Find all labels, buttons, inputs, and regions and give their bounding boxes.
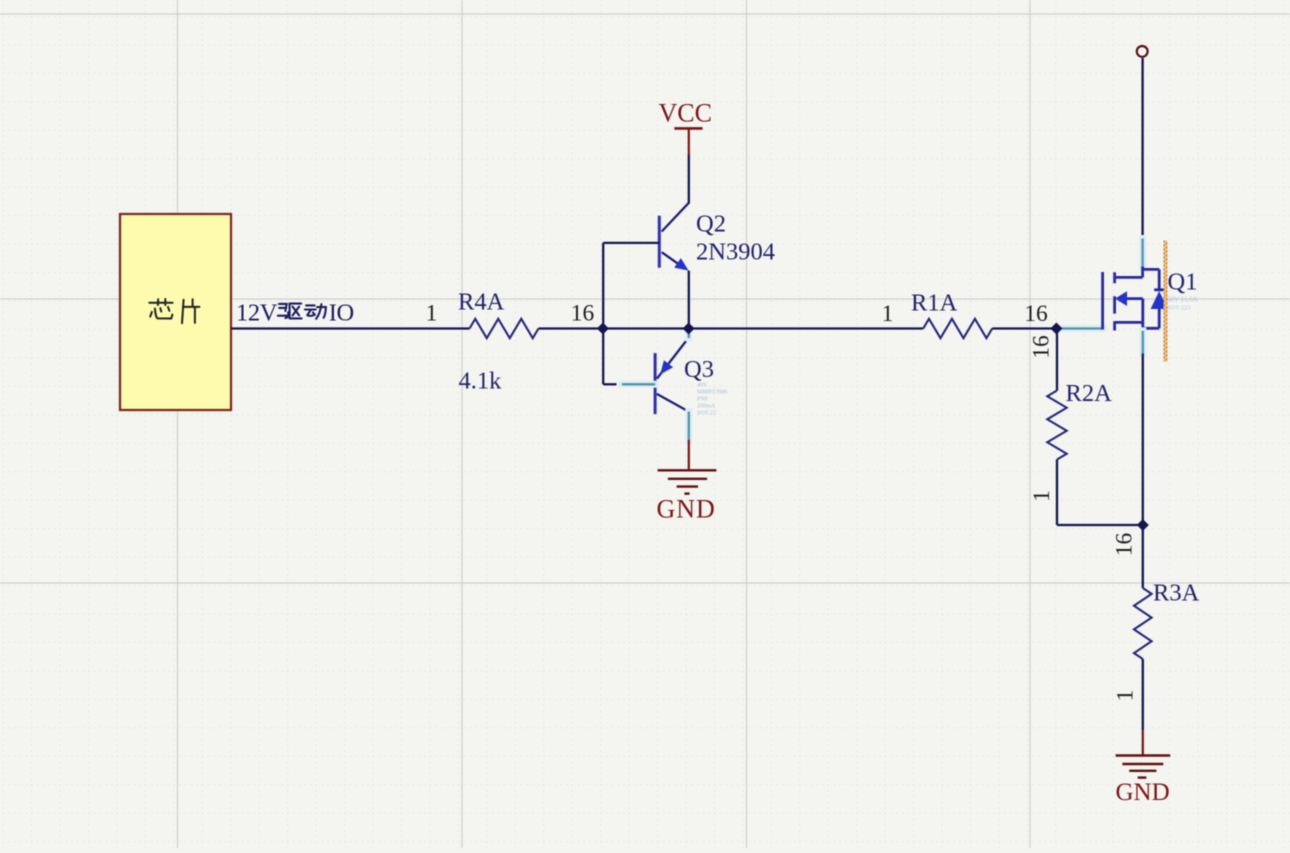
wire GND pin (red) bbox=[688, 440, 690, 469]
svg-text:1: 1 bbox=[1113, 690, 1139, 702]
wire R2A bottom lead bbox=[1056, 460, 1058, 526]
svg-text:R4A: R4A bbox=[458, 289, 505, 316]
svg-text:PNP: PNP bbox=[697, 397, 709, 403]
net label 12V驱动IO bbox=[236, 300, 354, 327]
wire R2A top lead bbox=[1056, 329, 1058, 391]
wire R3A bottom lead bbox=[1142, 659, 1144, 730]
transistor Q3 (PNP) bbox=[655, 338, 727, 417]
svg-text:MMBT3906: MMBT3906 bbox=[697, 390, 727, 396]
svg-text:Q2: Q2 bbox=[696, 211, 726, 238]
svg-text:1: 1 bbox=[1029, 490, 1055, 502]
svg-text:60V 11.6A: 60V 11.6A bbox=[1167, 296, 1198, 304]
resistor R4A bbox=[426, 289, 595, 395]
pin Q3 collector (cyan) bbox=[685, 412, 692, 440]
svg-text:16: 16 bbox=[1029, 335, 1055, 359]
wire drain vertical bbox=[1141, 58, 1143, 239]
svg-text:Q1: Q1 bbox=[1168, 269, 1198, 296]
resistor R3A bbox=[1112, 533, 1200, 702]
wire R3A top lead bbox=[1142, 525, 1144, 588]
wire gate (cyan) bbox=[1057, 325, 1103, 332]
wire Q2 emitter down to rail bbox=[688, 271, 690, 329]
svg-text:SOT-223: SOT-223 bbox=[1167, 305, 1191, 312]
pin Q3 base (cyan) bbox=[622, 381, 655, 388]
svg-text:SOT-23: SOT-23 bbox=[697, 411, 716, 417]
resistor R1A bbox=[882, 290, 1048, 339]
junction dot C (R1A / gate / R2A) bbox=[1050, 323, 1062, 335]
pin Q1 drain (cyan) bbox=[1139, 239, 1146, 268]
junction dot D (source / R2A / R3A) bbox=[1137, 519, 1149, 531]
svg-text:1: 1 bbox=[426, 301, 438, 327]
svg-text:16: 16 bbox=[571, 301, 595, 327]
pin Q1 source (cyan) bbox=[1139, 331, 1146, 354]
orange hatch strip bbox=[1164, 241, 1168, 362]
svg-text:VCC: VCC bbox=[659, 99, 712, 128]
svg-text:GND: GND bbox=[657, 495, 716, 524]
wire left vertical (base bus) bbox=[602, 243, 604, 384]
svg-text:GND: GND bbox=[1116, 779, 1170, 806]
wire source down to junction bbox=[1142, 354, 1144, 526]
wire Q3 base stub bbox=[603, 383, 616, 385]
svg-text:R2A: R2A bbox=[1066, 380, 1113, 407]
junction dot B (Q2 emitter / rail) bbox=[683, 323, 695, 335]
svg-text:4.1k: 4.1k bbox=[459, 368, 503, 395]
chip sheet-symbol 芯片 bbox=[120, 214, 231, 410]
VCC power port bbox=[659, 99, 712, 156]
svg-text:12V: 12V bbox=[236, 300, 278, 327]
mosfet Q1 bbox=[1103, 267, 1198, 331]
svg-text:16: 16 bbox=[1112, 533, 1138, 557]
wire Q2 base to left vertical bbox=[603, 242, 659, 244]
pin Q3 emitter (cyan) bbox=[685, 331, 692, 339]
wire bottom horizontal bbox=[1057, 524, 1143, 526]
svg-text:200mA: 200mA bbox=[697, 404, 716, 410]
svg-text:2N3904: 2N3904 bbox=[696, 239, 775, 266]
svg-text:Q3: Q3 bbox=[684, 356, 714, 383]
wire rail middle bbox=[539, 327, 924, 329]
junction dot A (left of Q2/Q3) bbox=[597, 323, 609, 335]
resistor R2A bbox=[1029, 335, 1113, 502]
terminal circle (top right) bbox=[1137, 46, 1148, 57]
svg-text:1: 1 bbox=[882, 301, 894, 327]
svg-text:40V: 40V bbox=[697, 383, 708, 389]
wire VCC to Q2 collector bbox=[688, 155, 690, 204]
wire GND pin bottom (red) bbox=[1142, 730, 1144, 755]
svg-text:16: 16 bbox=[1024, 301, 1048, 327]
svg-text:R3A: R3A bbox=[1153, 580, 1200, 607]
wire main rail left bbox=[231, 327, 470, 329]
svg-text:R1A: R1A bbox=[911, 290, 958, 317]
transistor Q2 2N3904 bbox=[659, 203, 775, 271]
wire rail right to junction bbox=[992, 327, 1056, 329]
svg-text:IO: IO bbox=[329, 300, 354, 327]
ground GND (middle) bbox=[658, 470, 717, 493]
ground GND (bottom right) bbox=[1116, 756, 1171, 778]
